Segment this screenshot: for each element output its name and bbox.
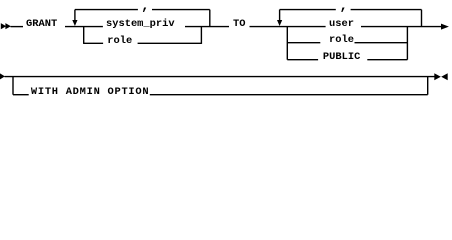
svg-text:PUBLIC: PUBLIC <box>323 51 360 63</box>
loop1 role branch line left segment <box>84 42 103 44</box>
start terminal symbol <box>1 23 11 29</box>
loop1 role branch split vertical <box>83 27 85 44</box>
svg-text:WITH ADMIN OPTION: WITH ADMIN OPTION <box>31 86 149 98</box>
loop1 right rejoin vertical <box>209 10 211 27</box>
loop2 role branch line right segment <box>355 42 408 44</box>
loop1 down arrowhead <box>72 20 77 26</box>
row2 option branch line right segment <box>150 94 428 96</box>
wire main line row1 after user <box>361 26 441 28</box>
row1 end arrowhead <box>441 24 449 30</box>
svg-text:system_priv: system_priv <box>106 18 175 30</box>
loop1 top repeat line right segment <box>152 9 210 11</box>
loop1 role branch line right segment <box>138 42 202 44</box>
wire main line row2 <box>5 76 435 78</box>
wire main line row1 after start <box>11 26 24 28</box>
loop2 top repeat line left segment <box>280 9 336 11</box>
wire main line row1 GRANT to loop1 <box>65 26 103 28</box>
loop2 PUBLIC branch line left segment <box>287 59 318 61</box>
loop1 left vertical with entry shaft <box>74 10 76 21</box>
row2 option rejoin vertical <box>427 77 429 95</box>
loop2 branch split vertical <box>286 27 288 60</box>
loop2 top repeat line right segment <box>351 9 422 11</box>
railroad syntax diagram: GRANT statement <box>0 0 452 99</box>
svg-text:,: , <box>340 0 348 14</box>
loop1 role branch rejoin vertical <box>200 27 202 44</box>
svg-text:role: role <box>107 35 132 47</box>
row2 continuation arrowhead <box>0 73 5 79</box>
svg-text:,: , <box>141 0 149 14</box>
wire main line row1 after TO <box>250 26 326 28</box>
loop2 right rejoin vertical <box>421 10 423 27</box>
loop2 left vertical with entry shaft <box>279 10 281 21</box>
svg-text:user: user <box>329 18 354 30</box>
loop2 branches rejoin vertical <box>406 27 408 60</box>
svg-text:role: role <box>329 34 354 46</box>
loop2 role branch line left segment <box>287 42 320 44</box>
loop2 PUBLIC branch line right segment <box>367 59 407 61</box>
svg-text:GRANT: GRANT <box>26 18 57 30</box>
end terminal symbol <box>434 73 441 80</box>
row2 option split vertical <box>12 77 14 95</box>
loop1 top repeat line left segment <box>75 9 138 11</box>
svg-text:TO: TO <box>233 18 245 30</box>
row2 option branch line left stub <box>13 94 29 96</box>
loop2 down arrowhead <box>277 20 282 26</box>
wire main line row1 after system_priv <box>185 26 229 28</box>
